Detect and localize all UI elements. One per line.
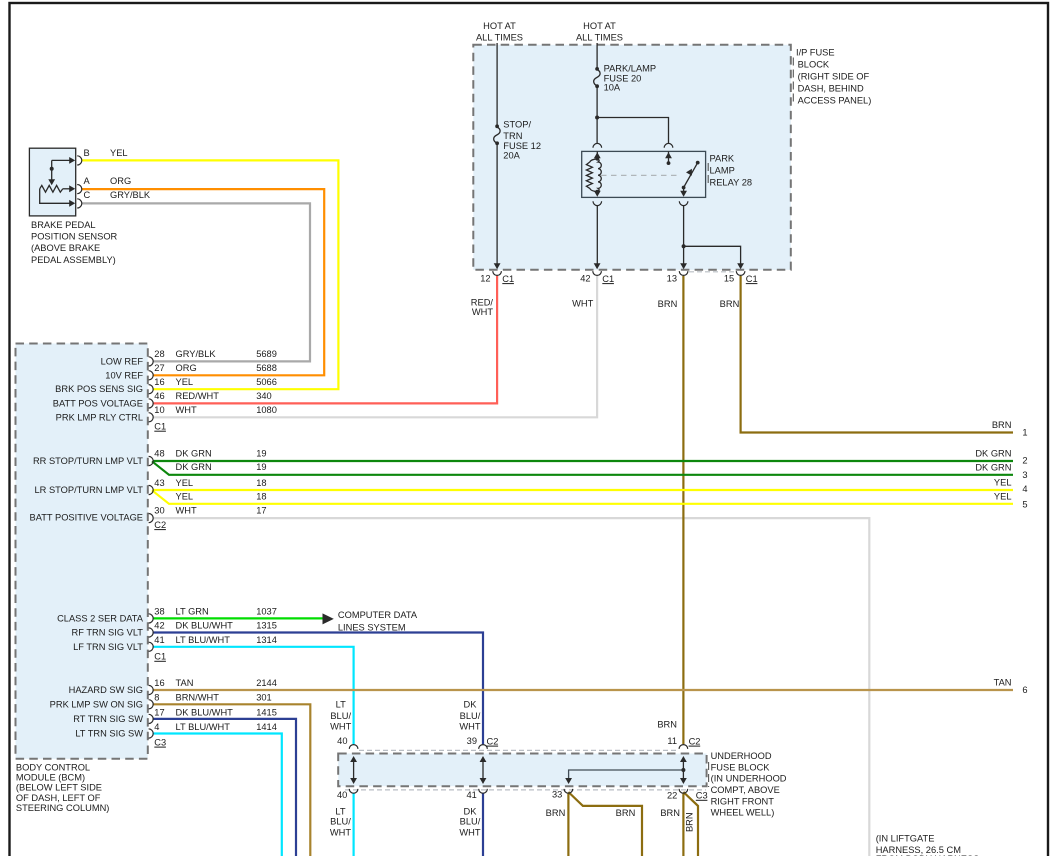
fuse 12 terminal dots: [495, 124, 499, 128]
svg-text:LF TRN SIG VLT: LF TRN SIG VLT: [73, 642, 143, 652]
svg-text:YEL: YEL: [994, 491, 1012, 501]
svg-text:RED/WHT: RED/WHT: [176, 391, 220, 401]
cup connector underhood pin 11 top: [679, 745, 688, 749]
svg-text:15: 15: [724, 274, 734, 284]
svg-text:16: 16: [154, 377, 164, 387]
svg-text:BRN: BRN: [546, 808, 566, 818]
wire BRN relay pin13 to underhood pin11 C2: [682, 276, 684, 744]
connector arc BCM pin 16b: [149, 685, 154, 694]
svg-text:POSITION SENSOR: POSITION SENSOR: [31, 232, 118, 242]
relay coil output lead: [596, 192, 598, 195]
connector arc BCM pin 43: [149, 485, 154, 494]
connector arc BCM pin 48: [149, 456, 154, 465]
stop/trn fuse 12 upper lead: [496, 43, 498, 126]
svg-text:RED/: RED/: [471, 297, 494, 307]
cup connector underhood pin 40 top: [349, 745, 358, 749]
svg-text:HOT AT: HOT AT: [483, 21, 516, 31]
arrowheads underhood pin 11: [680, 756, 687, 762]
cup connector underhood pin 39 top: [479, 745, 488, 749]
arrowhead I/P pin 15: [737, 263, 744, 269]
svg-text:PEDAL ASSEMBLY): PEDAL ASSEMBLY): [31, 255, 116, 265]
svg-text:LR STOP/TURN LMP VLT: LR STOP/TURN LMP VLT: [35, 485, 144, 495]
sensor resistor left end to pin C: [40, 189, 71, 204]
wire ORG sensor-A to BCM-27 ckt 5688: [82, 189, 325, 375]
relay switch common dot: [667, 161, 671, 165]
svg-text:LT: LT: [335, 807, 345, 817]
connector C3 line below underhood fuse block: [345, 789, 706, 791]
wire LT GRN BCM-38 ckt 1037 class 2 serial data: [153, 617, 323, 619]
svg-text:2144: 2144: [256, 678, 277, 688]
svg-text:LT GRN: LT GRN: [176, 606, 209, 616]
svg-text:BRN: BRN: [660, 808, 680, 818]
junction dot sensor wiper: [50, 167, 54, 171]
wire BRN below underhood pin22 straight: [682, 793, 684, 856]
stop/trn fuse 12 lower lead to pin 12: [496, 143, 498, 266]
svg-text:17: 17: [256, 505, 266, 515]
svg-text:BLU/: BLU/: [460, 711, 481, 721]
svg-text:C1: C1: [602, 274, 614, 284]
svg-text:1080: 1080: [256, 405, 277, 415]
svg-text:LT BLU/WHT: LT BLU/WHT: [176, 722, 231, 732]
svg-text:1315: 1315: [256, 621, 277, 631]
brake pedal position sensor box: [29, 148, 75, 216]
branch from fuse 20 to relay switch common: [597, 118, 668, 144]
svg-text:13: 13: [667, 274, 677, 284]
svg-text:BLU/: BLU/: [330, 711, 351, 721]
stop/trn fuse 12 element: [494, 127, 500, 143]
svg-text:39: 39: [467, 736, 477, 746]
svg-text:301: 301: [256, 693, 272, 703]
connector C1 line between pins 13 and 15: [689, 271, 735, 273]
svg-text:C3: C3: [154, 737, 166, 747]
svg-text:YEL: YEL: [110, 148, 128, 158]
park/lamp fuse 20 element: [594, 70, 600, 87]
wire BRN below underhood pin33 branch: [568, 792, 642, 856]
svg-text:18: 18: [256, 478, 266, 488]
cup connector relay common top: [664, 143, 673, 147]
svg-text:6: 6: [1022, 685, 1027, 695]
svg-text:WHT: WHT: [572, 299, 593, 309]
svg-text:WHT: WHT: [330, 721, 351, 731]
underhood fuse block label leader bar: [708, 762, 710, 787]
svg-text:1414: 1414: [256, 722, 277, 732]
svg-text:BRN: BRN: [657, 720, 677, 730]
svg-text:46: 46: [154, 391, 164, 401]
svg-text:BRK POS SENS SIG: BRK POS SENS SIG: [55, 384, 143, 394]
svg-text:ORG: ORG: [176, 363, 197, 373]
svg-text:I/P FUSE: I/P FUSE: [796, 47, 835, 57]
svg-text:PRK LMP RLY CTRL: PRK LMP RLY CTRL: [56, 412, 143, 422]
svg-text:CLASS 2 SER DATA: CLASS 2 SER DATA: [57, 613, 144, 623]
arrowhead relay common entry up: [665, 152, 672, 158]
sensor resistor right end to pin A: [63, 188, 71, 190]
svg-text:RT TRN SIG SW: RT TRN SIG SW: [73, 714, 143, 724]
svg-text:ALL TIMES: ALL TIMES: [476, 32, 523, 42]
connector arc BCM pin 46: [149, 399, 154, 408]
wire LT BLU/WHT BCM-4 ckt 1414: [153, 734, 282, 856]
arrowhead sensor pin B: [69, 157, 75, 164]
svg-text:10A: 10A: [604, 83, 621, 93]
svg-text:BRN: BRN: [992, 420, 1012, 430]
wire LT BLU/WHT BCM-41 ckt 1314 to underhood pin40: [153, 647, 354, 744]
cup connector underhood pin 33 bottom: [564, 789, 573, 793]
arrowhead underhood pin 33: [565, 778, 572, 784]
svg-text:30: 30: [154, 505, 164, 515]
svg-text:10V REF: 10V REF: [105, 370, 143, 380]
svg-text:BRN: BRN: [685, 812, 695, 832]
svg-text:OF DASH, LEFT OF: OF DASH, LEFT OF: [16, 793, 101, 803]
cup connector underhood pin 40 bottom: [349, 789, 358, 793]
svg-text:DASH, BEHIND: DASH, BEHIND: [798, 84, 864, 94]
svg-text:GRY/BLK: GRY/BLK: [176, 349, 217, 359]
svg-text:BRN: BRN: [658, 299, 678, 309]
svg-text:WHT: WHT: [176, 505, 197, 515]
connector arc BCM pin 16: [149, 385, 154, 394]
svg-text:40: 40: [337, 736, 347, 746]
svg-text:BATT POSITIVE VOLTAGE: BATT POSITIVE VOLTAGE: [30, 513, 143, 523]
svg-text:C3: C3: [696, 791, 708, 801]
relay contact dashed link: [601, 174, 681, 176]
connector arc BCM pin 28: [149, 357, 154, 366]
svg-text:41: 41: [466, 790, 476, 800]
svg-text:HOT AT: HOT AT: [583, 21, 616, 31]
cup connector relay pin 42 bottom: [593, 201, 602, 205]
svg-text:PARK/LAMP: PARK/LAMP: [604, 64, 657, 74]
svg-text:28: 28: [154, 349, 164, 359]
cup connector relay pin 13 bottom: [679, 201, 688, 205]
sensor wiper feed line to pin B: [52, 159, 71, 161]
svg-text:DK: DK: [464, 700, 478, 710]
svg-text:BRN: BRN: [720, 299, 740, 309]
underhood pin 39 double arrow shaft: [482, 758, 484, 783]
svg-text:12: 12: [480, 274, 490, 284]
relay coil bumps right: [597, 159, 601, 192]
svg-text:ACCESS PANEL): ACCESS PANEL): [798, 96, 872, 106]
svg-text:42: 42: [580, 274, 590, 284]
svg-text:1037: 1037: [256, 606, 277, 616]
svg-text:4: 4: [1022, 484, 1027, 494]
svg-text:C1: C1: [502, 274, 514, 284]
relay switch throw dot: [696, 161, 700, 165]
svg-text:STEERING COLUMN): STEERING COLUMN): [16, 803, 110, 813]
wire RED/WHT fuse12 pin12 to BCM-46 ckt 340: [153, 276, 498, 404]
arrowhead I/P pin 13: [680, 263, 687, 269]
svg-text:LT TRN SIG SW: LT TRN SIG SW: [75, 729, 143, 739]
svg-text:38: 38: [154, 606, 164, 616]
svg-text:LOW REF: LOW REF: [101, 356, 144, 366]
arrowhead sensor pin C: [69, 200, 75, 207]
underhood pin 11 shaft: [682, 758, 684, 783]
svg-text:BRN/WHT: BRN/WHT: [176, 693, 220, 703]
svg-text:LT BLU/WHT: LT BLU/WHT: [176, 635, 231, 645]
relay coil feed entering box: [596, 151, 598, 158]
svg-text:5066: 5066: [256, 377, 277, 387]
sensor wiper vertical: [51, 160, 53, 180]
arrowhead relay switch blade: [686, 167, 695, 176]
relay pin 42 lead below box: [596, 206, 598, 267]
svg-text:20A: 20A: [503, 151, 520, 161]
svg-text:BLU/: BLU/: [460, 817, 481, 827]
svg-text:3: 3: [1022, 470, 1027, 480]
svg-text:C2: C2: [154, 520, 166, 530]
wire BRN/WHT BCM-8 ckt 301: [153, 704, 311, 856]
svg-text:BRAKE PEDAL: BRAKE PEDAL: [31, 220, 96, 230]
svg-text:(BELOW LEFT SIDE: (BELOW LEFT SIDE: [16, 783, 102, 793]
wire LT BLU/WHT below underhood pin40: [353, 793, 355, 856]
I/P fuse block box: [473, 45, 791, 270]
svg-text:33: 33: [552, 789, 562, 799]
relay coil zigzag left: [586, 159, 597, 192]
wire DK BLU/WHT BCM-42 ckt 1315 to underhood pin39: [153, 633, 484, 745]
I/P fuse block label leader bar: [792, 58, 794, 104]
svg-text:C2: C2: [689, 736, 701, 746]
park/lamp fuse 20 lower lead to pin 42: [596, 86, 598, 144]
svg-text:COMPUTER DATA: COMPUTER DATA: [338, 610, 418, 620]
svg-text:40: 40: [337, 790, 347, 800]
cup connector relay coil top: [593, 143, 602, 147]
junction dot underhood pin 11: [681, 768, 685, 772]
svg-text:10: 10: [154, 405, 164, 415]
svg-text:YEL: YEL: [176, 478, 194, 488]
svg-text:(ABOVE BRAKE: (ABOVE BRAKE: [31, 243, 100, 253]
svg-text:DK GRN: DK GRN: [975, 449, 1011, 459]
arrowhead sensor wiper down: [48, 179, 55, 185]
svg-text:5: 5: [1022, 499, 1027, 509]
wire YEL ckt 18 to right edge 5: [152, 490, 1013, 504]
svg-text:DK GRN: DK GRN: [975, 462, 1011, 472]
svg-text:BLU/: BLU/: [330, 817, 351, 827]
svg-text:COMPT, ABOVE: COMPT, ABOVE: [711, 785, 780, 795]
svg-text:43: 43: [154, 478, 164, 488]
svg-text:8: 8: [154, 693, 159, 703]
arrowhead relay coil exit down: [594, 191, 601, 197]
svg-text:1: 1: [1022, 428, 1027, 438]
svg-text:ALL TIMES: ALL TIMES: [576, 32, 623, 42]
connector arc BCM pin 17: [149, 714, 154, 723]
svg-text:LAMP: LAMP: [710, 165, 735, 175]
relay switch blade: [684, 164, 697, 187]
connector arc sensor pin C: [77, 199, 82, 208]
svg-text:19: 19: [256, 449, 266, 459]
svg-text:DK GRN: DK GRN: [176, 449, 212, 459]
svg-text:GRY/BLK: GRY/BLK: [110, 190, 151, 200]
wire GRY/BLK sensor-C to BCM-28 ckt 5689: [82, 203, 311, 361]
relay output to pins 13 and 15: [684, 206, 741, 267]
connector arc BCM pin 38: [149, 614, 154, 623]
svg-text:A: A: [84, 176, 91, 186]
sensor potentiometer resistor zigzag: [40, 185, 63, 192]
wire BRN below underhood pin33 straight: [567, 793, 569, 856]
svg-text:WHT: WHT: [330, 828, 351, 838]
svg-text:340: 340: [256, 391, 272, 401]
svg-text:DK BLU/WHT: DK BLU/WHT: [176, 707, 234, 717]
svg-text:RIGHT FRONT: RIGHT FRONT: [711, 796, 775, 806]
wire DK BLU/WHT BCM-17 ckt 1415: [153, 719, 297, 856]
wire YEL sensor-B to BCM-16 ckt 5066: [82, 160, 339, 389]
svg-text:DK: DK: [464, 807, 478, 817]
connector C2 line above underhood fuse block: [359, 749, 678, 751]
connector arc BCM pin 10: [149, 413, 154, 422]
fuse 20 terminal dots: [595, 67, 599, 71]
svg-text:PRK LMP SW ON SIG: PRK LMP SW ON SIG: [50, 699, 143, 709]
svg-text:DK GRN: DK GRN: [176, 462, 212, 472]
svg-text:WHT: WHT: [459, 721, 480, 731]
connector arc sensor pin A: [77, 185, 82, 194]
arrowheads underhood pin 39: [480, 756, 487, 762]
svg-text:ORG: ORG: [110, 176, 131, 186]
svg-text:TAN: TAN: [176, 678, 194, 688]
svg-text:17: 17: [154, 707, 164, 717]
wire WHT BCM-30 ckt 17 batt positive voltage: [153, 518, 870, 856]
svg-text:BRN: BRN: [616, 808, 636, 818]
svg-text:WHT: WHT: [472, 307, 493, 317]
svg-text:BODY CONTROL: BODY CONTROL: [16, 762, 90, 772]
arrowhead I/P pin 42: [594, 263, 601, 269]
relay switch common entering box: [668, 151, 670, 163]
svg-text:YEL: YEL: [176, 492, 194, 502]
arrowheads underhood pin 40: [350, 756, 357, 762]
svg-text:DK BLU/WHT: DK BLU/WHT: [176, 621, 234, 631]
svg-text:16: 16: [154, 678, 164, 688]
cup connector I/P pin 42: [593, 271, 602, 275]
cup connector underhood pin 22 bottom: [679, 789, 688, 793]
svg-text:18: 18: [256, 492, 266, 502]
svg-text:HAZARD SW SIG: HAZARD SW SIG: [69, 685, 143, 695]
cup connector I/P pin 15: [736, 271, 745, 275]
underhood fuse block box: [338, 754, 706, 787]
arrowhead relay coil entry up: [594, 152, 601, 158]
svg-text:41: 41: [154, 635, 164, 645]
cup connector I/P pin 12: [493, 271, 502, 275]
junction dot relay output split: [682, 244, 686, 248]
wire BRN relay pin15 to right edge 1: [741, 276, 1013, 433]
park lamp relay label leader bar: [707, 163, 709, 187]
connector arc BCM pin 30: [149, 514, 154, 523]
relay switch pivot dot: [682, 186, 686, 190]
svg-text:11: 11: [667, 736, 677, 746]
wire WHT relay pin42 to BCM-10 ckt 1080: [153, 276, 598, 418]
svg-text:B: B: [84, 148, 90, 158]
wire BRN below underhood pin22 branch: [683, 792, 698, 856]
relay switch output lead: [683, 188, 685, 195]
svg-text:FUSE BLOCK: FUSE BLOCK: [711, 763, 771, 773]
svg-text:WHT: WHT: [459, 828, 480, 838]
svg-text:RELAY 28: RELAY 28: [710, 177, 753, 187]
svg-text:1314: 1314: [256, 635, 277, 645]
svg-text:(IN LIFTGATE: (IN LIFTGATE: [876, 834, 935, 844]
svg-text:MODULE (BCM): MODULE (BCM): [16, 773, 85, 783]
underhood internal branch to pin 33: [569, 770, 684, 783]
svg-text:22: 22: [667, 791, 677, 801]
svg-text:YEL: YEL: [176, 377, 194, 387]
svg-text:BATT POS VOLTAGE: BATT POS VOLTAGE: [53, 398, 143, 408]
arrowhead sensor pin A: [69, 185, 75, 192]
relay coil top dot: [595, 157, 599, 161]
underhood pin 40 double arrow shaft: [353, 758, 355, 783]
arrow computer data lines system: [323, 613, 334, 624]
cup connector I/P pin 13: [679, 271, 688, 275]
connector arc sensor pin B: [77, 156, 82, 165]
svg-text:1415: 1415: [256, 707, 277, 717]
svg-text:19: 19: [256, 462, 266, 472]
svg-text:42: 42: [154, 621, 164, 631]
arrowhead relay switch exit down: [680, 191, 687, 197]
svg-text:LT: LT: [336, 700, 346, 710]
wire DK GRN BCM-48 ckt 19 to right edge 2: [153, 460, 1014, 462]
svg-text:WHEEL WELL): WHEEL WELL): [711, 808, 775, 818]
junction dot fuse 20 branch: [595, 116, 599, 120]
svg-text:2: 2: [1022, 456, 1027, 466]
svg-text:(RIGHT SIDE OF: (RIGHT SIDE OF: [798, 72, 870, 82]
wire DK GRN ckt 19 to right edge 3: [152, 461, 1013, 475]
connector arc BCM pin 41: [149, 642, 154, 651]
park lamp relay 28 box: [582, 151, 706, 197]
wire TAN BCM-16 ckt 2144 to right edge 6: [153, 689, 1014, 691]
park/lamp fuse 20 upper lead: [596, 43, 598, 69]
connector arc BCM pin 8: [149, 700, 154, 709]
body control module (BCM) box: [16, 344, 148, 759]
svg-text:LINES SYSTEM: LINES SYSTEM: [338, 623, 406, 633]
cup connector underhood pin 41 bottom: [479, 789, 488, 793]
svg-text:5689: 5689: [256, 349, 277, 359]
arrowhead I/P pin 12: [494, 263, 501, 269]
relay coil bottom dot: [595, 190, 599, 194]
svg-text:RR STOP/TURN LMP VLT: RR STOP/TURN LMP VLT: [33, 456, 143, 466]
wire DK BLU/WHT below underhood pin41: [482, 793, 484, 856]
svg-text:5688: 5688: [256, 363, 277, 373]
svg-text:YEL: YEL: [994, 478, 1012, 488]
connector arc BCM pin 4: [149, 729, 154, 738]
svg-text:C2: C2: [487, 736, 499, 746]
svg-text:C1: C1: [154, 652, 166, 662]
svg-text:RF TRN SIG VLT: RF TRN SIG VLT: [72, 628, 144, 638]
connector arc BCM pin 42: [149, 628, 154, 637]
svg-text:C1: C1: [154, 421, 166, 431]
svg-text:BLOCK: BLOCK: [798, 59, 830, 69]
svg-text:TRN: TRN: [503, 131, 522, 141]
svg-text:27: 27: [154, 363, 164, 373]
svg-text:48: 48: [154, 449, 164, 459]
connector arc BCM pin 27: [149, 371, 154, 380]
svg-text:UNDERHOOD: UNDERHOOD: [711, 751, 772, 761]
svg-text:WHT: WHT: [176, 405, 197, 415]
svg-text:(IN UNDERHOOD: (IN UNDERHOOD: [711, 774, 787, 784]
svg-text:C1: C1: [746, 274, 758, 284]
wire YEL BCM-43 ckt 18 to right edge 4: [153, 489, 1014, 491]
svg-text:STOP/: STOP/: [503, 120, 531, 130]
svg-text:C: C: [84, 190, 91, 200]
svg-text:PARK: PARK: [710, 153, 735, 163]
svg-text:4: 4: [154, 722, 159, 732]
svg-text:TAN: TAN: [994, 677, 1012, 687]
